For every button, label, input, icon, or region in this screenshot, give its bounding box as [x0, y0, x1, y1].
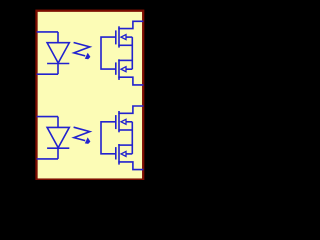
LED D1	[47, 32, 69, 74]
package outline	[37, 11, 144, 180]
light arrow channel 1	[74, 43, 91, 60]
LED D2	[47, 117, 69, 159]
wire Q2 drain to pin	[118, 77, 143, 85]
light arrow channel 2	[74, 127, 91, 144]
wire gate bus channel 1	[101, 37, 115, 69]
wire Q4 drain to pin	[118, 162, 143, 170]
wire Q1 drain to pin	[118, 21, 143, 28]
wire common source node channel 1	[131, 37, 133, 69]
transistor Q2	[116, 59, 133, 80]
transistor Q4	[116, 144, 133, 165]
wire cathode input channel 1	[37, 73, 58, 75]
wire anode input channel 2	[37, 116, 58, 118]
wire Q3 source	[118, 129, 132, 131]
channel 1	[37, 21, 144, 85]
channel 2	[37, 106, 144, 170]
wire Q2 source	[118, 59, 132, 61]
wire anode input channel 1	[37, 31, 58, 33]
transistor Q3	[116, 111, 133, 132]
transistor Q1	[116, 26, 133, 47]
wire common source node channel 2	[131, 122, 133, 154]
wire Q1 source	[118, 44, 132, 46]
wire Q3 drain to pin	[118, 106, 143, 113]
wire cathode input channel 2	[37, 158, 58, 160]
wire gate bus channel 2	[101, 122, 115, 154]
wire Q4 source	[118, 144, 132, 146]
